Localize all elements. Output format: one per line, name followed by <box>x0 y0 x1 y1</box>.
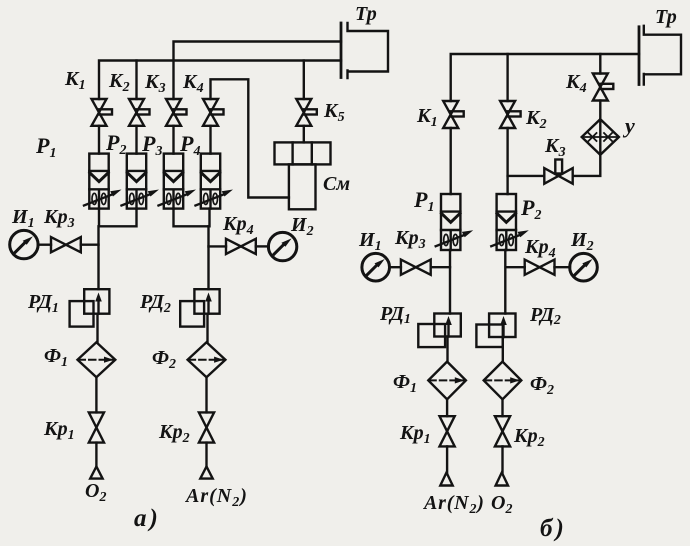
label O2 (b) <box>491 492 512 517</box>
source Ar(N2) triangle <box>200 467 212 479</box>
valve K2 (b) <box>500 101 520 128</box>
wire F2 to Kr2 (b) <box>501 399 503 416</box>
valve Kr1 (b) <box>440 416 455 446</box>
svg-text:Кр2: Кр2 <box>158 421 190 446</box>
wire RD2 to F2 <box>206 314 208 343</box>
rotameter P1 (b) <box>436 194 474 250</box>
wire U to K3 <box>573 155 601 176</box>
rotameter P1 <box>84 154 122 209</box>
wire K4 to P4 <box>209 126 211 154</box>
gauge I2 (b) <box>570 253 598 281</box>
valve Kr2 <box>199 412 214 442</box>
valve K1 <box>92 99 113 126</box>
label P1 <box>35 133 56 161</box>
valve Kr2 (b) <box>495 416 510 446</box>
label RD2 (b) <box>529 304 561 328</box>
label a) <box>134 505 161 532</box>
label P3 <box>141 131 162 159</box>
wire Kr1 to Ar source (b) <box>446 446 448 472</box>
valve Kr3 <box>51 237 81 252</box>
svg-text:Кр4: Кр4 <box>524 236 556 261</box>
label F1 <box>44 345 68 370</box>
svg-text:Ф1: Ф1 <box>44 345 68 370</box>
label K1 (b) <box>416 105 438 130</box>
wire P3-P4 junction bar <box>174 209 210 227</box>
wire K4 to U <box>599 101 601 120</box>
wire Kr3 to column (b) <box>431 266 450 268</box>
svg-text:Кр1: Кр1 <box>399 422 431 447</box>
svg-text:И2: И2 <box>570 229 594 254</box>
svg-text:РД2: РД2 <box>529 304 561 328</box>
wire column2 to Kr4 (b) <box>506 266 524 268</box>
svg-text:К1: К1 <box>416 105 438 130</box>
wire K5 to mixer <box>303 126 305 143</box>
label b) <box>540 515 567 542</box>
filter F2 <box>188 342 226 377</box>
wire Kr1 to O2 source <box>95 443 97 467</box>
label Kr1 (b) <box>399 422 431 447</box>
label P1 (b) <box>413 187 434 215</box>
svg-text:Ф1: Ф1 <box>393 371 417 396</box>
label Tr (left) <box>355 3 377 25</box>
svg-text:К5: К5 <box>323 100 345 125</box>
rotameter P3 <box>159 154 197 209</box>
wire K3 to P3 <box>172 126 174 154</box>
label K1 <box>64 68 86 93</box>
wire RD2 to F2 (b) <box>502 337 504 362</box>
valve K1 (b) <box>443 101 464 128</box>
svg-text:Ф2: Ф2 <box>530 373 554 398</box>
label K4 (b) <box>565 71 587 96</box>
wire lower bus to Tr (K1 branch) <box>99 61 341 100</box>
svg-text:О2: О2 <box>85 480 106 505</box>
label Kr1 <box>43 418 75 443</box>
svg-text:О2: О2 <box>491 492 512 517</box>
source O2 triangle <box>90 467 102 479</box>
label Kr3 (b) <box>394 227 426 252</box>
valve K4 (b) <box>593 74 614 101</box>
valve Kr4 (b) <box>525 260 555 275</box>
wire upper bus to Tr (K3 branch) <box>174 42 342 100</box>
gauge I1 (b) <box>362 253 390 281</box>
rotameter P4 <box>196 154 234 209</box>
wire F1 to Kr1 <box>95 377 97 412</box>
label Ar(N2) <box>184 485 248 510</box>
valve K2 <box>129 99 150 126</box>
svg-text:Ф2: Ф2 <box>152 347 176 372</box>
svg-text:К3: К3 <box>144 71 166 96</box>
svg-text:К2: К2 <box>108 70 130 95</box>
wire Kr4 to I2 <box>256 245 269 247</box>
svg-text:К1: К1 <box>64 68 86 93</box>
svg-text:б): б) <box>540 515 567 542</box>
svg-text:Кр4: Кр4 <box>222 213 254 238</box>
burner Tr (right) <box>639 26 681 85</box>
regulator RD1 (b) <box>418 314 461 348</box>
wire K1 to P1 <box>98 126 100 154</box>
label RD1 <box>27 291 59 316</box>
wire column 4 to Kr4 <box>209 245 227 247</box>
wire RD1 to F1 <box>96 314 98 343</box>
wire P2 down to RD2 (b) <box>504 250 506 314</box>
rotameter P2 <box>122 154 160 209</box>
svg-text:Р1: Р1 <box>35 133 56 161</box>
wire column 1 down to RD1 <box>97 226 99 289</box>
regulator RD2 <box>180 289 219 326</box>
svg-text:Р1: Р1 <box>413 187 434 215</box>
valve K4 <box>203 99 224 126</box>
wire Kr3 to column 1 <box>81 243 99 245</box>
label Kr2 (b) <box>513 425 545 450</box>
gauge I1 <box>10 230 38 258</box>
humidifier U <box>582 119 619 155</box>
label P2 <box>105 130 126 158</box>
label I1 (b) <box>358 229 382 254</box>
filter F2 (b) <box>484 362 522 400</box>
valve K3 <box>166 99 187 126</box>
svg-text:Ar(N2): Ar(N2) <box>184 485 248 510</box>
label Kr2 <box>158 421 190 446</box>
valve K3 (b) <box>544 160 572 184</box>
label O2 <box>85 480 106 505</box>
label I2 (left diagram) <box>290 214 314 239</box>
svg-text:К2: К2 <box>525 107 547 132</box>
label K3 <box>144 71 166 96</box>
source Ar(N2) triangle (b) <box>440 473 452 486</box>
svg-text:Ar(N2): Ar(N2) <box>422 492 485 517</box>
wire K2 to P2 <box>135 126 137 154</box>
gauge I2 <box>268 232 296 260</box>
svg-text:РД2: РД2 <box>139 291 171 316</box>
wire I1 to Kr3 <box>38 243 51 245</box>
svg-text:И1: И1 <box>11 206 35 231</box>
label Kr3 <box>43 206 75 231</box>
label Kr4 (b) <box>524 236 556 261</box>
label K2 (b) <box>525 107 547 132</box>
wire K2 riser <box>506 54 508 101</box>
label Tr (right) <box>655 6 677 28</box>
svg-text:а): а) <box>134 505 161 532</box>
svg-text:РД1: РД1 <box>27 291 59 316</box>
wire K3 to K2 column <box>508 175 545 177</box>
svg-text:у: у <box>622 113 635 138</box>
rotameter P2 (b) <box>491 194 529 250</box>
svg-text:И2: И2 <box>290 214 314 239</box>
label Ar(N2) (b) <box>422 492 485 517</box>
wire P1 down to RD1 (b) <box>449 250 451 314</box>
svg-text:Кр2: Кр2 <box>513 425 545 450</box>
wire I1 to Kr3 (b) <box>389 266 401 268</box>
label F2 <box>152 347 176 372</box>
label F1 (b) <box>393 371 417 396</box>
label Kr4 <box>222 213 254 238</box>
label K2 <box>108 70 130 95</box>
svg-text:Р2: Р2 <box>105 130 126 158</box>
wire K1 to P1 (b) <box>450 128 452 194</box>
label K3 (b) <box>544 135 566 160</box>
burner Tr (left) <box>341 23 388 78</box>
wire K4 bypass to mixer <box>211 79 289 197</box>
wire Kr2 to O2 source (b) <box>501 446 503 472</box>
valve K5 <box>296 99 317 126</box>
wire column 4 down to RD2 <box>207 226 209 289</box>
filter F1 (b) <box>428 362 466 400</box>
wire F2 to Kr2 <box>205 377 207 412</box>
label RD1 (b) <box>379 303 411 327</box>
source O2 triangle (b) <box>496 473 508 486</box>
label U <box>622 113 635 138</box>
wire Kr4 to I2 (b) <box>555 266 571 268</box>
svg-text:Тр: Тр <box>655 6 677 28</box>
wire K2 riser <box>135 61 137 100</box>
svg-text:Тр: Тр <box>355 3 377 25</box>
valve Kr4 <box>226 239 256 254</box>
svg-text:Кр1: Кр1 <box>43 418 75 443</box>
label I1 <box>11 206 35 231</box>
wire RD1 to F1 (b) <box>446 337 448 362</box>
label RD2 <box>139 291 171 316</box>
wire F1 to Kr1 (b) <box>446 399 448 416</box>
wire Kr2 to Ar source <box>205 443 207 467</box>
label K5 <box>323 100 345 125</box>
svg-text:Кр3: Кр3 <box>43 206 75 231</box>
svg-text:РД1: РД1 <box>379 303 411 327</box>
filter F1 <box>78 342 116 377</box>
svg-text:Р3: Р3 <box>141 131 162 159</box>
wire K2 to P2 (b) <box>506 128 508 194</box>
svg-text:Кр3: Кр3 <box>394 227 426 252</box>
svg-text:К3: К3 <box>544 135 566 160</box>
wire P1-P2 junction bar <box>99 209 137 227</box>
svg-text:К4: К4 <box>182 71 204 96</box>
valve Kr1 <box>89 412 104 442</box>
label P4 <box>179 131 200 159</box>
svg-text:Р2: Р2 <box>520 195 541 223</box>
regulator RD1 <box>70 289 110 326</box>
svg-text:И1: И1 <box>358 229 382 254</box>
svg-text:См: См <box>323 173 350 195</box>
valve Kr3 (b) <box>401 260 431 275</box>
label F2 (b) <box>530 373 554 398</box>
wire K5 riser <box>303 61 305 100</box>
wire bus to Tr (K1 riser) <box>451 54 639 101</box>
svg-text:К4: К4 <box>565 71 587 96</box>
wire K4 riser <box>599 54 601 74</box>
svg-text:Р4: Р4 <box>179 131 200 159</box>
regulator RD2 (b) <box>476 314 515 348</box>
label Sm <box>323 173 350 195</box>
mixer Sm <box>275 142 331 209</box>
label P2 (b) <box>520 195 541 223</box>
label I2 (b) <box>570 229 594 254</box>
label K4 <box>182 71 204 96</box>
